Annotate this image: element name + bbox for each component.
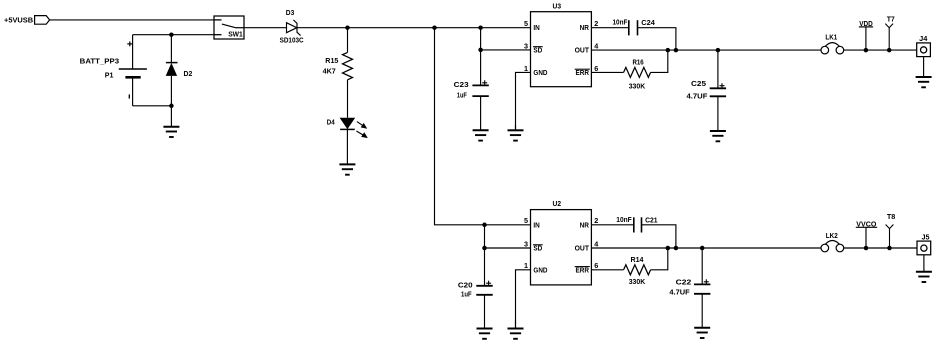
node R14/OUT junction [666, 246, 671, 251]
wire C21 to OUT rail [642, 225, 676, 248]
wire U3 GND pin [516, 72, 531, 130]
test point T7 [885, 24, 893, 50]
svg-text:1uF: 1uF [457, 91, 467, 100]
svg-text:6: 6 [594, 261, 598, 270]
capacitor C24 [629, 20, 638, 35]
node C22 junction [700, 246, 705, 251]
wire U2 OUT rail [591, 247, 821, 249]
resistor R16 [624, 67, 651, 77]
svg-text:6: 6 [594, 64, 598, 73]
wire to U3 IN pin [435, 27, 531, 29]
node T8 tap [887, 246, 892, 251]
svg-text:SW1: SW1 [228, 31, 243, 38]
svg-text:R16: R16 [633, 58, 644, 67]
ground C23 [473, 96, 489, 141]
diode D3 (schottky) [287, 20, 301, 36]
ground U3 GND [508, 125, 524, 141]
svg-text:10nF: 10nF [613, 18, 628, 27]
svg-text:2: 2 [594, 216, 598, 225]
node A (to U2 branch) [432, 25, 437, 30]
capacitor C22 [694, 279, 710, 294]
wire U2 ERR to R14 [591, 269, 623, 271]
wire to U2 SD pin [485, 247, 531, 249]
svg-text:SD103C: SD103C [280, 35, 304, 44]
battery P1 [119, 35, 147, 106]
svg-text:U3: U3 [553, 1, 562, 10]
connector J5 [917, 241, 931, 255]
svg-text:VDD: VDD [859, 19, 873, 28]
port flag +5VUSB [35, 16, 50, 25]
wire LK2 to J5 [844, 247, 917, 249]
svg-text:330K: 330K [629, 277, 646, 286]
wire junction to R15 [347, 28, 349, 53]
svg-text:1: 1 [524, 64, 528, 73]
svg-text:1uF: 1uF [461, 290, 472, 299]
node SD/C23 junction [478, 48, 483, 53]
svg-text:R14: R14 [631, 255, 645, 264]
battery minus mark [128, 94, 130, 98]
svg-text:ERR: ERR [576, 70, 590, 77]
wire +5VUSB to SW1 top input [50, 19, 214, 21]
wire C24 to OUT rail [638, 28, 676, 50]
node SD branch (U2) [482, 223, 487, 228]
svg-text:D2: D2 [184, 69, 193, 78]
svg-text:LK1: LK1 [825, 32, 837, 41]
svg-text:4.7UF: 4.7UF [687, 92, 708, 101]
test point T8 [886, 225, 894, 249]
svg-text:SD: SD [533, 47, 542, 54]
svg-text:IN: IN [533, 222, 539, 229]
svg-text:C25: C25 [691, 79, 706, 88]
node VVCO tap [864, 246, 869, 251]
capacitor C20 [476, 281, 492, 295]
svg-text:LK2: LK2 [826, 231, 838, 240]
power flag VDD [865, 27, 867, 50]
resistor R14 [624, 265, 651, 275]
wire U3 OUT rail [591, 49, 821, 51]
svg-text:D4: D4 [327, 117, 336, 126]
svg-text:10nF: 10nF [616, 215, 632, 224]
ground J4 [916, 57, 932, 88]
svg-text:4K7: 4K7 [323, 67, 336, 76]
svg-text:R15: R15 [325, 56, 338, 65]
node SD branch top (U3) [478, 25, 483, 30]
wire battery bottom to junction [133, 105, 172, 107]
svg-text:3: 3 [524, 41, 528, 50]
LED D4 emission arrows [356, 122, 366, 138]
svg-text:+5VUSB: +5VUSB [4, 16, 34, 25]
wire U3 NR to C24 [591, 27, 628, 29]
node R16/OUT junction [666, 48, 671, 53]
svg-text:J5: J5 [922, 232, 930, 241]
svg-text:VVCO: VVCO [856, 220, 876, 229]
ground U2 GND [508, 320, 524, 339]
wire R15 to D4 [347, 80, 349, 118]
node C24/OUT junction [674, 48, 679, 53]
wire battery top to SW1 bottom input [133, 34, 214, 36]
resistor R15 [343, 52, 353, 79]
svg-text:4: 4 [594, 41, 598, 50]
svg-text:C20: C20 [458, 281, 473, 290]
node C21/OUT junction [674, 246, 679, 251]
wire U2 GND pin [516, 270, 531, 329]
svg-text:NR: NR [580, 25, 589, 32]
svg-text:SD: SD [533, 246, 542, 253]
wire SW1 output to D3 anode [244, 27, 287, 29]
LED D4 [340, 118, 356, 130]
svg-text:U2: U2 [553, 199, 562, 208]
ground C20 [477, 295, 493, 339]
op-amp-style regulator U3 body [531, 12, 592, 87]
svg-text:T7: T7 [887, 15, 895, 24]
svg-text:C22: C22 [676, 277, 692, 286]
op-amp-style regulator U2 body [531, 210, 592, 285]
svg-text:330K: 330K [629, 82, 646, 91]
svg-text:OUT: OUT [575, 246, 590, 253]
wire SD junction down to C23 [480, 50, 482, 86]
wire down to SD line (U3) [480, 28, 482, 50]
svg-text:4: 4 [594, 239, 598, 248]
capacitor C21 [634, 217, 642, 232]
svg-text:C21: C21 [645, 215, 658, 224]
svg-text:GND: GND [533, 70, 547, 77]
link LK1 [821, 43, 844, 54]
svg-text:D3: D3 [286, 8, 295, 17]
switch SW1 [214, 16, 244, 39]
ground D4 branch [339, 129, 355, 174]
ground J5 [916, 255, 932, 282]
wire R14 to OUT rail [651, 248, 668, 270]
wire U3 ERR to R16 [591, 71, 623, 73]
svg-text:IN: IN [533, 25, 539, 32]
wire OUT rail down to C22 [701, 248, 703, 284]
svg-text:5: 5 [524, 216, 528, 225]
node T7 tap [887, 48, 892, 53]
battery plus mark [127, 41, 132, 46]
ground battery branch [163, 106, 179, 137]
svg-text:C24: C24 [641, 18, 655, 27]
power flag VVCO [865, 227, 867, 248]
capacitor C23 [472, 80, 488, 96]
ground C25 [710, 96, 726, 141]
svg-text:BATT_PP3: BATT_PP3 [80, 56, 119, 65]
node VDD tap [864, 48, 869, 53]
wire node A down to U2 channel [435, 28, 531, 225]
wire SD junction down to C20 [484, 248, 486, 286]
wire D3 cathode to junction A [297, 27, 435, 29]
wire R16 to OUT rail [651, 50, 668, 72]
wire U2 NR to C21 [591, 224, 633, 226]
wire down to SD line (U2) [484, 225, 486, 248]
ground C22 [694, 294, 710, 338]
node C25 junction [716, 48, 721, 53]
svg-text:T8: T8 [887, 212, 895, 221]
svg-text:J4: J4 [919, 34, 927, 43]
svg-text:2: 2 [594, 19, 598, 28]
svg-text:4.7UF: 4.7UF [669, 288, 690, 297]
svg-text:1: 1 [524, 261, 528, 270]
node battery/D2 top junction [169, 32, 174, 37]
svg-text:5: 5 [524, 19, 528, 28]
svg-text:GND: GND [533, 267, 547, 274]
node battery/D2 bottom junction [169, 104, 174, 109]
wire OUT rail down to C25 [717, 50, 719, 88]
node SD/C20 junction [482, 246, 487, 251]
link LK2 [821, 241, 844, 252]
svg-text:OUT: OUT [575, 47, 590, 54]
svg-text:3: 3 [524, 239, 528, 248]
capacitor C25 [710, 83, 726, 96]
svg-text:C23: C23 [454, 80, 469, 89]
wire LK1 to J4 [844, 49, 917, 51]
connector J4 [917, 43, 931, 57]
svg-text:P1: P1 [105, 70, 114, 79]
diode D2 [166, 35, 178, 106]
svg-text:ERR: ERR [576, 267, 590, 274]
wire to U3 SD pin [481, 49, 531, 51]
node R15 branch junction [345, 25, 350, 30]
svg-text:NR: NR [580, 222, 589, 229]
